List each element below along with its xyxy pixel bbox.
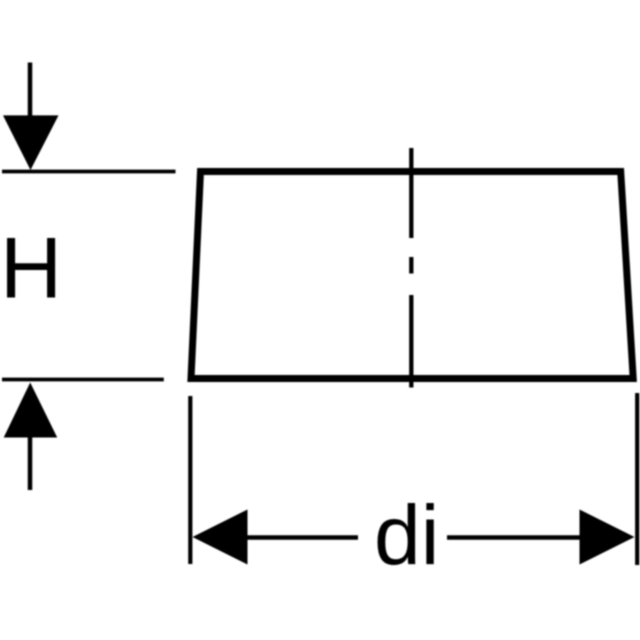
H dimension: bottom arrow leader — [28, 437, 33, 490]
centerline lower dash — [409, 295, 413, 388]
svg-text:di: di — [374, 488, 439, 582]
H dimension: bottom extension line — [2, 378, 164, 382]
di dimension: right extension line — [635, 393, 639, 565]
H dimension: top arrow leader — [28, 63, 33, 119]
di dimension: right line segment — [447, 535, 580, 540]
svg-text:H: H — [0, 221, 62, 317]
di dimension: left line segment — [247, 535, 358, 540]
centerline upper dash — [409, 148, 413, 238]
di dimension: right arrowhead (right) — [580, 510, 635, 565]
H dimension: top arrowhead (down) — [3, 115, 59, 170]
centerline dot — [409, 257, 413, 274]
centerline (dash-dot) — [409, 148, 413, 388]
di dimension: left extension line — [188, 396, 192, 564]
di dimension: left arrowhead (left) — [193, 510, 248, 565]
trapezoid body (gasket cross-section) — [191, 172, 633, 379]
H dimension: bottom arrowhead (up) — [4, 383, 58, 438]
H dimension: top extension line — [2, 170, 176, 174]
